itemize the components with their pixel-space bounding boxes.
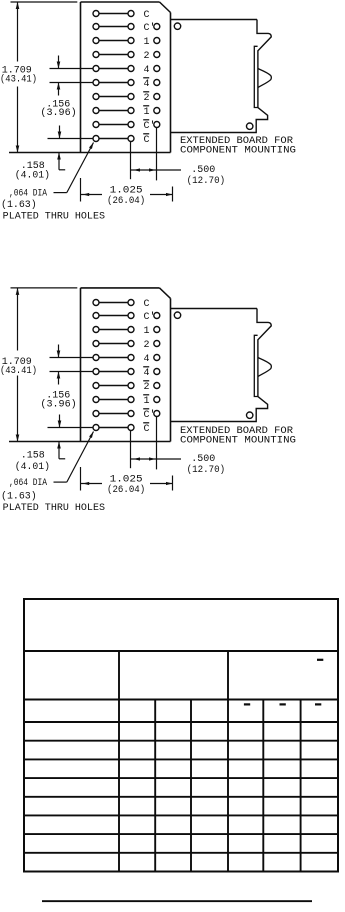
svg-text:2: 2	[144, 51, 150, 62]
leader .064 dia (drawing 2)	[54, 432, 94, 483]
svg-text:1.025: 1.025	[110, 185, 143, 196]
svg-text:C': C'	[144, 120, 156, 132]
svg-text:2: 2	[144, 340, 150, 351]
dimension droppers (drawing 2)	[131, 417, 157, 470]
svg-text:(43.41): (43.41)	[0, 74, 37, 86]
svg-text:1: 1	[144, 326, 150, 337]
board outline (drawing 2)	[9, 288, 171, 442]
svg-text:2: 2	[144, 93, 150, 104]
mounting hole top (drawing 2)	[174, 312, 180, 318]
svg-text:(3.96): (3.96)	[40, 398, 76, 410]
dimension 1.025 (drawing 2)	[81, 467, 173, 491]
dimension .158 (drawing 2)	[57, 415, 65, 459]
board outline (drawing 1)	[9, 2, 171, 153]
svg-text:(4.01): (4.01)	[15, 170, 50, 182]
svg-text:.158: .158	[21, 451, 45, 462]
plated thru holes (drawing 2)	[93, 300, 160, 431]
dimension 1.709 (drawing 2)	[11, 288, 78, 442]
svg-text:PLATED THRU HOLES: PLATED THRU HOLES	[3, 503, 105, 514]
svg-text:C: C	[144, 299, 150, 310]
handle bump (drawing 2)	[258, 358, 272, 377]
extended board caption (drawing 2)	[180, 426, 296, 447]
svg-text:(4.01): (4.01)	[15, 461, 50, 473]
svg-text:(1.63): (1.63)	[1, 199, 37, 211]
leader .064 dia (drawing 1)	[54, 143, 94, 193]
svg-text:(26.04): (26.04)	[107, 484, 145, 496]
mounting hole bottom (drawing 2)	[247, 412, 253, 418]
svg-text:4: 4	[144, 368, 150, 379]
svg-text:,064 DIA: ,064 DIA	[9, 189, 47, 200]
svg-text:.500: .500	[191, 454, 215, 465]
svg-text:C: C	[144, 10, 150, 21]
svg-text:1: 1	[144, 37, 150, 48]
svg-text:COMPONENT MOUNTING: COMPONENT MOUNTING	[180, 436, 296, 447]
mounting hole bottom (drawing 1)	[247, 123, 253, 129]
svg-text:(43.41): (43.41)	[0, 365, 37, 377]
svg-text:C': C'	[144, 311, 156, 323]
svg-text:1.025: 1.025	[110, 475, 143, 486]
specifications table	[24, 599, 338, 872]
dimension 1.709 (drawing 1)	[11, 2, 78, 153]
dimension .156 (drawing 2)	[57, 345, 61, 385]
extended board caption (drawing 1)	[180, 136, 296, 157]
pin labels (drawing 1)	[143, 10, 155, 146]
handle bump (drawing 1)	[258, 69, 272, 88]
svg-text:(12.70): (12.70)	[187, 464, 226, 476]
dimension .156 (drawing 1)	[57, 56, 61, 96]
footer rule	[42, 900, 312, 902]
svg-text:4: 4	[144, 65, 150, 76]
connector bar (drawing 2)	[254, 335, 257, 396]
svg-text:2: 2	[144, 382, 150, 393]
svg-text:4: 4	[144, 79, 150, 90]
dimension droppers (drawing 1)	[131, 128, 157, 181]
pin labels (drawing 2)	[143, 299, 155, 435]
extended board outline (drawing 2)	[171, 309, 272, 422]
row wires (drawing 2)	[48, 303, 132, 428]
svg-text:PLATED THRU HOLES: PLATED THRU HOLES	[3, 211, 105, 222]
svg-text:.500: .500	[191, 165, 215, 176]
svg-text:1: 1	[144, 396, 150, 407]
connector bar (drawing 1)	[254, 46, 257, 107]
dimension .500 (drawing 1)	[131, 168, 182, 171]
svg-text:(26.04): (26.04)	[107, 195, 145, 207]
svg-text:1: 1	[144, 107, 150, 118]
svg-text:C: C	[144, 424, 150, 435]
svg-text:4: 4	[144, 354, 150, 365]
table header dashes	[244, 659, 323, 706]
svg-text:(12.70): (12.70)	[187, 175, 226, 187]
plated thru holes (drawing 1)	[93, 11, 160, 142]
svg-text:,064 DIA: ,064 DIA	[9, 478, 47, 489]
dimension 1.025 (drawing 1)	[81, 178, 173, 202]
row wires (drawing 1)	[48, 14, 132, 139]
svg-text:(3.96): (3.96)	[40, 107, 76, 119]
svg-text:C: C	[144, 135, 150, 146]
mounting hole top (drawing 1)	[174, 23, 180, 29]
svg-text:(1.63): (1.63)	[1, 491, 37, 503]
svg-text:C': C'	[144, 409, 156, 421]
svg-text:COMPONENT MOUNTING: COMPONENT MOUNTING	[180, 146, 296, 157]
extended board outline (drawing 1)	[171, 20, 272, 133]
svg-text:C': C'	[144, 22, 156, 34]
dimension .500 (drawing 2)	[131, 457, 182, 460]
dimension .158 (drawing 1)	[57, 126, 65, 170]
